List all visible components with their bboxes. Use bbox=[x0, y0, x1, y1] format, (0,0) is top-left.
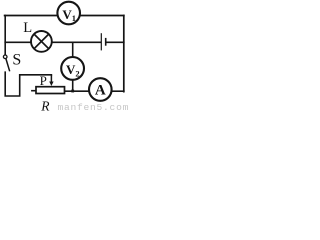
svg-text:L: L bbox=[23, 20, 32, 36]
wire right bbox=[123, 16, 125, 92]
switch S bbox=[3, 55, 9, 71]
svg-text:S: S bbox=[12, 51, 21, 68]
wire middle row bbox=[5, 41, 101, 43]
wire rheostat left stub bbox=[32, 90, 36, 92]
svg-text:R: R bbox=[40, 98, 50, 111]
ammeter A bbox=[89, 78, 112, 101]
svg-text:A: A bbox=[95, 82, 106, 98]
wire switch lower u-path bbox=[5, 72, 51, 96]
rheostat R body bbox=[36, 87, 65, 94]
svg-text:manfen5.com: manfen5.com bbox=[58, 102, 130, 111]
voltmeter V1 bbox=[57, 2, 80, 25]
node junction under V2 bbox=[71, 90, 74, 93]
wire left bbox=[4, 16, 6, 55]
wire battery to right bbox=[106, 41, 124, 43]
wire top bbox=[5, 15, 124, 17]
battery cell bbox=[101, 33, 105, 50]
wire V2 bottom stub bbox=[72, 79, 74, 91]
voltmeter V2 bbox=[61, 57, 84, 80]
wire ammeter right bbox=[112, 90, 124, 92]
wire V2 top stub bbox=[72, 42, 74, 58]
wire rheostat right to ammeter bbox=[65, 90, 90, 92]
rheostat slider arrow P bbox=[49, 75, 53, 86]
svg-text:2: 2 bbox=[75, 68, 79, 78]
lamp L bbox=[31, 31, 52, 52]
svg-text:P: P bbox=[40, 73, 47, 88]
svg-text:1: 1 bbox=[72, 13, 76, 23]
